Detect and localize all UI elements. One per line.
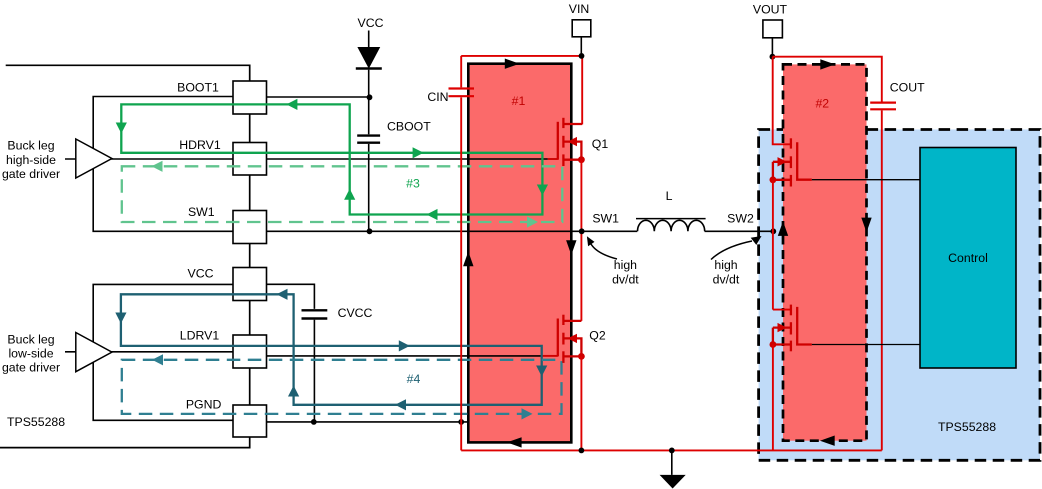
pin square PGND <box>233 405 267 437</box>
capacitor CVCC <box>302 309 328 311</box>
wire VCC loop (low-side driver supply loop) <box>93 284 233 420</box>
loop #3 arrow down on right vertical <box>537 185 548 196</box>
inductor L coil humps <box>638 220 705 231</box>
callout curve right (high dv/dt to SW2) <box>711 241 752 260</box>
svg-text:#4: #4 <box>407 372 421 386</box>
loop #4 arrow down on right vertical <box>536 366 547 377</box>
block #2 flow arrow right (top edge) <box>820 59 835 69</box>
svg-text:#3: #3 <box>406 177 420 191</box>
svg-text:dv/dt: dv/dt <box>612 272 639 286</box>
svg-text:HDRV1: HDRV1 <box>179 138 221 152</box>
power stage block #1 (shaded) <box>468 64 571 443</box>
wire SW1 net <box>267 230 638 232</box>
loop #3 arrow right on HDRV1 line <box>413 147 424 158</box>
svg-text:gate driver: gate driver <box>2 167 60 181</box>
loop #4 arrow up on CVCC-return vertical <box>288 386 299 397</box>
loop #3 arrow down on left vertical <box>116 123 127 134</box>
capacitor COUT (red) <box>870 101 896 103</box>
pin square BOOT1 <box>233 81 267 114</box>
svg-text:VIN: VIN <box>569 2 590 16</box>
svg-text:SW2: SW2 <box>727 212 754 226</box>
loop #3 dashed arrow left (top side) <box>152 161 163 172</box>
diode (VCC to BOOT1) <box>358 48 379 68</box>
svg-text:SW1: SW1 <box>592 212 619 226</box>
terminal square VOUT <box>763 20 783 38</box>
capacitor CBOOT <box>357 134 380 136</box>
wire M3 source to SW2 to M4 drain (red) <box>773 180 791 310</box>
svg-text:CVCC: CVCC <box>338 306 373 320</box>
svg-text:VCC: VCC <box>358 16 384 30</box>
current loop #3 return dashed green rectangle <box>122 166 563 222</box>
ground symbol <box>671 450 673 475</box>
IC TPS55288 dashed outline box (right) <box>759 130 1040 461</box>
svg-text:Control: Control <box>948 251 988 265</box>
block #1 flow arrow up (left edge) <box>463 252 473 267</box>
svg-text:COUT: COUT <box>890 81 925 95</box>
transistor M3 (synchronous, mirrored) <box>773 138 812 186</box>
wire M4 gate to control <box>812 344 920 346</box>
pin column connecting wires <box>249 114 251 405</box>
svg-text:high-side: high-side <box>6 153 56 167</box>
loop #4 dashed arrow right (bottom side) <box>522 408 533 419</box>
output loop red wire VOUT to COUT <box>772 57 881 451</box>
loop #3 arrow left on BOOT1 line <box>286 99 297 110</box>
wire BOOT1 loop (high-side driver supply loop) <box>93 97 233 232</box>
svg-text:#1: #1 <box>512 94 526 108</box>
node CVCC/PGND junction <box>311 419 317 425</box>
control block <box>920 148 1016 369</box>
pin square VCC <box>233 268 267 301</box>
pin square LDRV1 <box>233 335 267 368</box>
op-amp buffer high-side gate driver triangle <box>76 139 112 178</box>
wire PGND net <box>267 421 469 423</box>
node CBOOT/SW1 junction <box>367 228 373 234</box>
VIN feed wire <box>580 37 582 56</box>
svg-text:CBOOT: CBOOT <box>387 120 431 134</box>
wire BOOT1 to diode/CBOOT junction <box>267 96 370 98</box>
loop #4 arrow left on VCC line <box>277 289 288 300</box>
pin square HDRV1 <box>233 143 267 176</box>
transistor Q1 <box>558 118 582 166</box>
node PGND/input-loop junction <box>458 419 464 425</box>
wire M4 source to ground line (red) <box>772 345 774 451</box>
transistor Q2 gate wire (red tail) <box>543 355 558 357</box>
terminal square VIN <box>572 20 591 37</box>
loop #4 arrow down on left vertical <box>115 313 126 324</box>
wire M3 gate to control <box>812 179 920 181</box>
wire CBOOT to SW1 <box>368 144 370 231</box>
input current loop (red) top segment <box>461 56 582 125</box>
wire diode to CBOOT <box>368 70 370 135</box>
callout curve left (high dv/dt to SW1) <box>590 241 618 259</box>
svg-text:TPS55288: TPS55288 <box>7 415 65 429</box>
current loop #3 solid green (high-side gate drive path) <box>121 104 542 214</box>
ground return bottom segment (red) <box>461 449 882 451</box>
wire VCC pin to CVCC <box>267 284 315 309</box>
node SW1 <box>579 228 585 234</box>
left controller IC partial outline bottom wire <box>0 437 250 448</box>
left controller IC partial outline top wire <box>6 65 250 81</box>
node SW2 <box>770 228 776 234</box>
inductor L top bar <box>636 218 706 220</box>
svg-text:PGND: PGND <box>186 398 222 412</box>
wire LDRV1 input from driver <box>65 351 250 353</box>
svg-text:VCC: VCC <box>188 267 214 281</box>
transistor Q2 <box>558 315 582 363</box>
wire HDRV1 to Q1 gate <box>65 158 548 160</box>
current loop #4 solid teal (low-side gate drive path) <box>121 294 542 405</box>
block #2 flow arrow up (left edge) <box>778 221 788 236</box>
svg-text:gate driver: gate driver <box>2 361 60 375</box>
wire Q1 source to SW1 to Q2 drain (red) <box>580 160 582 321</box>
block #2 flow arrow left (bottom edge) <box>820 436 835 446</box>
loop #3 arrow left on bottom line <box>427 209 438 220</box>
block #1 flow arrow right (top edge) <box>505 59 520 69</box>
svg-text:Q1: Q1 <box>592 137 609 151</box>
power stage block #2 (shaded, dashed) <box>783 64 867 440</box>
svg-text:Buck leg: Buck leg <box>7 139 54 153</box>
svg-text:#2: #2 <box>815 96 829 110</box>
svg-text:CIN: CIN <box>427 90 448 104</box>
node Q2 source / ground <box>579 448 585 454</box>
transistor Q1 gate wire (red tail) <box>548 158 558 160</box>
capacitor CIN (red) <box>449 87 475 89</box>
svg-text:VOUT: VOUT <box>753 2 788 16</box>
svg-text:LDRV1: LDRV1 <box>180 328 220 342</box>
svg-text:dv/dt: dv/dt <box>713 272 740 286</box>
svg-text:SW1: SW1 <box>188 205 215 219</box>
input current loop (red) left vertical with CIN <box>460 56 462 451</box>
node VIN junction <box>579 53 585 59</box>
wire CVCC to PGND <box>313 320 315 422</box>
wire VOUT to M3 drain (red) <box>773 57 791 145</box>
pin square SW1 <box>233 211 267 244</box>
svg-text:high: high <box>714 258 737 272</box>
loop #4 arrow left on bottom line <box>395 399 406 410</box>
node VOUT junction <box>770 54 776 60</box>
svg-text:Buck leg: Buck leg <box>7 332 54 346</box>
svg-text:Q2: Q2 <box>589 329 606 343</box>
block #1 flow arrow left (bottom edge) <box>507 437 522 447</box>
loop #3 dashed arrow right (bottom side) <box>527 216 538 227</box>
wire LDRV1 to Q2 gate <box>250 355 543 357</box>
svg-text:L: L <box>666 189 673 203</box>
loop #4 arrow right on LDRV1 line <box>399 340 410 351</box>
wire inductor to SW2 <box>705 230 774 232</box>
svg-text:BOOT1: BOOT1 <box>177 81 219 95</box>
loop #3 arrow up on CBOOT-return vertical <box>344 189 355 200</box>
node diode/CBOOT/BOOT1 junction <box>367 94 373 100</box>
block #1 flow arrow down (right edge) <box>566 240 576 255</box>
wire Q2 source to ground line (red) <box>580 356 582 450</box>
svg-text:TPS55288: TPS55288 <box>938 420 996 434</box>
svg-text:low-side: low-side <box>8 346 53 360</box>
VCC bootstrap diode wire <box>368 31 370 48</box>
svg-text:high: high <box>614 258 637 272</box>
VOUT feed wire <box>771 38 773 57</box>
node ground junction <box>669 448 675 454</box>
op-amp buffer low-side gate driver triangle <box>76 333 112 372</box>
transistor M4 (mirrored) <box>773 305 812 352</box>
block #2 flow arrow down (right edge) <box>861 218 871 233</box>
current loop #4 return dashed teal rectangle <box>122 360 562 414</box>
loop #4 dashed arrow left (top side) <box>152 354 163 365</box>
